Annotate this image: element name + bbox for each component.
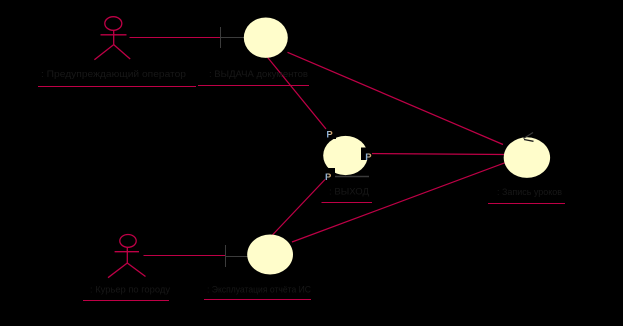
use case U2 (center ellipse) [323, 136, 368, 175]
svg-text:P: P [325, 172, 332, 183]
wire association: bottom use case to center use case (P anchor) [262, 180, 325, 247]
wire association: top use case to center use case (P anchor) [264, 53, 326, 129]
svg-text:: Предупреждающий оператор: : Предупреждающий оператор [41, 69, 186, 80]
underline actor A1 [38, 86, 196, 88]
wire: gray segment tick to top use case [221, 37, 249, 39]
wire: actor A1 association red segment [130, 37, 221, 39]
gray anchor mark on top of right use case [524, 133, 534, 139]
wire association: bottom use case to right use case [292, 161, 511, 243]
wire association: center use case (P box) to right use case [362, 154, 506, 155]
svg-text:P: P [365, 152, 372, 163]
gray underline below center use case [335, 176, 369, 178]
svg-text:: ВЫХОД: : ВЫХОД [329, 187, 370, 198]
node P box bottom-left of U2 [324, 168, 336, 177]
wire association: top use case to right use case [288, 52, 504, 144]
underline actor A2 [83, 300, 169, 302]
underline use case U3 [488, 203, 565, 205]
svg-text:: ВЫДАЧА документов: : ВЫДАЧА документов [209, 69, 308, 80]
svg-text:: Запись уроков: : Запись уроков [497, 187, 562, 198]
junction tick at bottom association [225, 245, 227, 267]
actor A1 (top-left stick figure) [94, 17, 130, 60]
use case U1 (top ellipse) [244, 18, 288, 58]
use case U4 (bottom ellipse) [247, 235, 293, 275]
svg-text:P: P [326, 130, 333, 141]
underline use case U1 [198, 85, 309, 87]
svg-text:: Курьер по городу: : Курьер по городу [90, 285, 170, 296]
wire: actor A2 association red segment [144, 255, 226, 257]
actor A2 (bottom-left stick figure) [108, 235, 146, 278]
node P box top-left of U2 [325, 131, 336, 140]
node P box right of U2 [361, 148, 372, 161]
underline use case U2 [322, 202, 373, 204]
underline use case U4 [204, 299, 311, 301]
svg-text:: Эксплуатация отчёта ИС: : Эксплуатация отчёта ИС [207, 285, 311, 296]
junction tick at top association [220, 27, 222, 48]
wire: gray segment tick to bottom use case [226, 256, 252, 258]
use case U3 (right ellipse) [504, 137, 550, 178]
